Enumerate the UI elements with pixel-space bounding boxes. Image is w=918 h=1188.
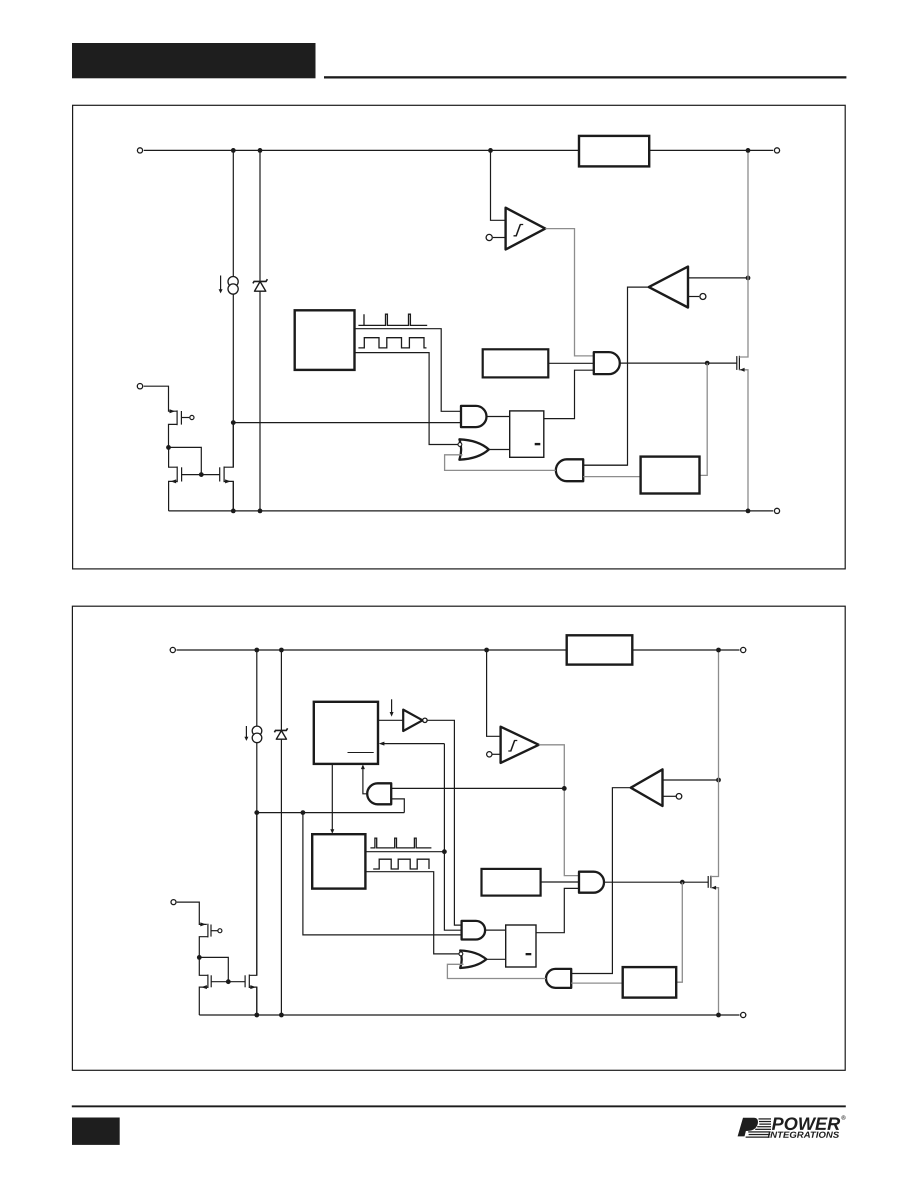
inverter U11 bubble (423, 718, 427, 722)
leading edge blanking block (diagram 1) (483, 349, 549, 377)
footer rule (72, 1105, 846, 1107)
terminal BYPASS right (diagram 2) (741, 647, 746, 652)
wire oscillator DMAX output (355, 353, 460, 445)
transistor Q4 gate plate (219, 467, 221, 481)
transistor Q11 channel (710, 876, 712, 888)
wire bypass rail x256 (diagram 2) (256, 650, 258, 1015)
wire schmitt U2 ref input (493, 237, 506, 239)
node source rail zener (diagram 2) (279, 1013, 284, 1018)
figure 1 frame (73, 105, 846, 569)
node comparator U3 sense tap (746, 276, 751, 281)
node schmitt output tap (562, 786, 567, 791)
wire bypass rail x233 (232, 150, 234, 511)
AND gate U1 (594, 352, 620, 374)
wire top rail D (diagram 2) (177, 649, 740, 651)
transistor Q1 channel (738, 356, 740, 370)
oscillator select arrowhead (330, 829, 334, 834)
AND gate U14 (reversed) (367, 783, 391, 804)
transistor Q1 drain rail (739, 150, 748, 357)
wire comparator U16 output (571, 788, 631, 974)
transistor Q3 channel (176, 467, 178, 483)
transistor Q2 channel (176, 410, 178, 425)
transistor Q13 source arrow (201, 985, 207, 989)
wire Q14 source (249, 987, 256, 1015)
node enable tap (231, 420, 236, 425)
regulator block (5.8 V) (579, 136, 649, 167)
schmitt U12 hysteresis glyph (508, 741, 517, 752)
AND gate U10 (579, 872, 604, 893)
transistor Q2 drain arrow (170, 409, 176, 413)
node mirror gate (diagram 2) (226, 979, 231, 984)
node top rail bypass tap (231, 148, 236, 153)
node mirror top (166, 445, 171, 450)
node source rail Q11 (716, 1013, 721, 1018)
wire AND U14 bottom input (391, 799, 404, 813)
transistor Q1 gate plate (736, 356, 738, 370)
node source rail Q1 (746, 509, 751, 514)
node top rail zener tap (diagram 2) (279, 648, 284, 653)
state machine count arrowhead (361, 764, 365, 769)
wire top rail D (diagram 1) (144, 149, 773, 151)
figure 2 frame (72, 606, 845, 1070)
wire comparator U3 drain sense input (688, 277, 748, 279)
regulator block (diagram 2) (567, 635, 633, 664)
terminal comparator U16 reference (676, 794, 682, 800)
oscillator 2 clock waveform (370, 838, 431, 848)
node source rail bypass (231, 509, 236, 514)
oscillator block (diagram 2) (312, 834, 365, 888)
node comparator U16 sense tap (716, 778, 721, 783)
node top rail schmitt tap (488, 148, 493, 153)
transistor Q12 channel (207, 924, 209, 938)
terminal Q12 gate (218, 929, 222, 933)
schmitt buffer U2 (506, 208, 546, 250)
state machine underline mark (348, 752, 374, 754)
wire clock vertical bus (444, 744, 461, 931)
wire schmitt U12 output (539, 745, 579, 876)
terminal SOURCE (diagram 1) (774, 508, 779, 513)
wire EN input (144, 386, 177, 411)
node top rail bypass tap (diagram 2) (254, 648, 259, 653)
wire oscillator 2 clock output (365, 851, 444, 853)
ILIMIT reduce arrow (391, 699, 393, 712)
current source CS2 arrowhead (244, 737, 248, 741)
wire schmitt U12 ref input (492, 753, 500, 755)
node top rail schmitt tap (diagram 2) (484, 648, 489, 653)
terminal comparator U3 reference (700, 294, 706, 300)
AND gate U4 (461, 406, 487, 427)
wire Q2 gate lead (181, 417, 189, 419)
wire state machine output (378, 719, 403, 721)
OR gate U15 (460, 951, 486, 969)
terminal DRAIN left (diagram 2) (170, 647, 175, 652)
wire bottom source rail (diagram 2) (199, 1014, 739, 1016)
terminal Q2 gate (190, 415, 194, 419)
wire current limit output (541, 881, 579, 883)
transistor Q2 gate plate (180, 411, 182, 425)
wire enable node to AND U4 (233, 422, 461, 424)
wire comparator U3 output (583, 287, 649, 465)
transistor Q13 gate plate (210, 975, 212, 987)
node top rail drain tap (diagram 2) (716, 648, 721, 653)
wire AND U13 output (485, 929, 506, 931)
wire comparator U16 drain sense input (663, 779, 719, 781)
wire AND U6 output to OR U5 (445, 455, 556, 471)
wire AND U14 output to state machine (363, 769, 368, 794)
wire Q3 drain (169, 447, 178, 467)
header rule (324, 76, 846, 78)
current source CS1 arrow (220, 276, 222, 290)
inverter U11 (403, 710, 422, 731)
wire EN input (diagram 2) (177, 902, 207, 924)
current limit block (diagram 2) (482, 869, 541, 896)
wire LEB output (548, 362, 594, 364)
transistor Q14 channel (248, 975, 250, 989)
zener diode VR1 triangle (255, 282, 266, 292)
oscillator clock waveform (358, 314, 427, 325)
transistor Q1 source rail (739, 370, 748, 511)
schmitt U2 hysteresis glyph (514, 225, 524, 236)
wire Q12 source down (199, 937, 208, 958)
wire AND U6 top input from comparator (583, 464, 627, 466)
wire AND U6 bottom input from counter (583, 476, 640, 478)
wire mirror gate bus (182, 474, 220, 476)
wire oscillator clock output (355, 329, 462, 412)
wire flip-flop 2 Q to AND U10 (536, 888, 579, 932)
transistor Q12 gate plate (210, 925, 212, 937)
current source CS2 circles (252, 726, 262, 743)
header title bar (blacked out) (72, 43, 316, 78)
state machine clock arrowhead (379, 742, 385, 746)
node enable tap (diagram 2) (254, 810, 259, 815)
wire gate to auto-restart feedback (700, 363, 708, 475)
wire Q3 source (169, 481, 178, 511)
wire AND U17 bottom input from counter (571, 982, 623, 984)
node mirror gate (199, 472, 204, 477)
transistor Q1 source arrow (740, 368, 745, 372)
OR gate U5 (459, 439, 488, 459)
wire Q13 source (199, 987, 208, 1015)
wire schmitt U2 output (545, 229, 594, 356)
wire comparator U3 ref input (688, 296, 699, 298)
transistor Q3 source arrow (171, 479, 177, 483)
terminal DRAIN left (diagram 1) (137, 148, 142, 153)
wire Q12 gate lead (211, 930, 218, 932)
wire to schmitt U12 input (487, 650, 501, 736)
auto-restart counter block (diagram 2) (623, 967, 677, 998)
latch / flip-flop block (diagram 1) (510, 411, 544, 457)
OR U15 input bubble (459, 952, 463, 956)
node source rail zener (258, 509, 263, 514)
node gate feedback tap (705, 361, 710, 366)
wire Q4 source (224, 481, 233, 511)
wire Q13 drain (199, 957, 208, 975)
transistor Q4 channel (223, 467, 225, 483)
wire inverter U11 output (427, 720, 461, 925)
wire comparator U16 ref input (663, 795, 676, 797)
current-limit state machine block (314, 702, 378, 764)
node top rail drain tap (746, 148, 751, 153)
node source rail bypass (diagram 2) (254, 1013, 259, 1018)
wire gate to auto-restart feedback (diagram 2) (676, 882, 682, 982)
transistor Q11 source arrow (711, 886, 716, 890)
wire zener rail x260 (259, 150, 261, 511)
wire mirror gate link upper (169, 447, 202, 474)
transistor Q14 source arrow (250, 985, 256, 989)
oscillator DMAX waveform (358, 338, 426, 348)
wire AND U1 output to gate (620, 362, 737, 364)
transistor Q11 gate plate (707, 876, 709, 888)
wire AND U17 output to OR U15 (447, 964, 546, 978)
schmitt buffer U12 (501, 727, 539, 763)
wire zener rail x281 (diagram 2) (280, 650, 282, 1015)
terminal BYPASS right (diagram 1) (774, 148, 779, 153)
AND gate U6 (reversed) (556, 459, 583, 481)
zener diode VR1 cathode bar (253, 279, 268, 283)
zener diode VR2 triangle (276, 731, 286, 740)
wire OR U15 output (486, 958, 506, 960)
comparator U16 (631, 769, 663, 806)
node top rail zener tap (258, 148, 263, 153)
terminal EN (diagram 1) (137, 384, 142, 389)
current source CS1 circles (228, 277, 238, 295)
transistor Q13 channel (207, 975, 209, 989)
transistor Q11 source rail (711, 888, 719, 1015)
transistor Q12 drain arrow (200, 922, 206, 926)
wire enable node to AND U13 (diagram 2) (257, 812, 405, 814)
wire OR U5 output (489, 449, 510, 451)
wire oscillator 2 DMAX output (365, 872, 460, 954)
node mirror top (diagram 2) (197, 955, 202, 960)
transistor Q11 drain rail (711, 650, 719, 877)
wire flip-flop Q to AND U1 (544, 370, 594, 418)
wire bottom source rail (diagram 1) (169, 510, 774, 512)
zener diode VR2 cathode bar (274, 728, 287, 732)
transistor Q14 gate plate (244, 975, 246, 987)
wire to schmitt U2 input (491, 150, 506, 220)
Power Integrations logo (738, 1115, 846, 1137)
ILIMIT reduce arrowhead (390, 712, 394, 717)
wire AND U14 top input tap (391, 787, 564, 789)
node gate feedback tap (diagram 2) (680, 880, 685, 885)
AND gate U17 (reversed) (546, 969, 571, 988)
terminal schmitt U12 reference input (487, 752, 492, 757)
auto-restart counter block (diagram 1) (641, 457, 700, 494)
AND gate U13 (462, 921, 486, 940)
current source CS1 arrowhead (219, 289, 223, 293)
footer page tab (blacked out) (72, 1118, 120, 1145)
wire AND U4 output (487, 416, 510, 418)
node enable branch (301, 810, 306, 815)
transistor Q3 gate plate (181, 467, 183, 481)
terminal schmitt U2 reference input (486, 234, 492, 240)
wire Q2 source down (169, 424, 178, 447)
wire enable branch to AND U13 (303, 813, 462, 935)
wire clock into state machine (382, 743, 445, 745)
current source CS2 arrow (245, 726, 247, 737)
flip-flop Qbar mark (535, 443, 541, 445)
OR U5 input bubble (458, 443, 462, 447)
comparator U3 (649, 267, 688, 308)
oscillator 2 DMAX waveform (373, 859, 429, 869)
wire mirror gate bus (diagram 2) (211, 981, 245, 983)
transistor Q4 source arrow (225, 479, 231, 483)
wire Q4 drain to enable node (224, 423, 233, 468)
node clock tap (442, 849, 447, 854)
wire Q14 drain to enable node (249, 813, 256, 976)
latch / flip-flop block (diagram 2) (506, 925, 536, 967)
oscillator block (diagram 1) (295, 310, 355, 370)
wire state machine to oscillator (331, 764, 333, 830)
terminal EN (diagram 2) (171, 900, 176, 905)
terminal SOURCE (diagram 2) (741, 1012, 746, 1017)
flip-flop 2 Qbar mark (526, 953, 532, 955)
wire AND U10 output to gate (604, 881, 708, 883)
wire mirror gate link upper (diagram 2) (199, 957, 228, 981)
